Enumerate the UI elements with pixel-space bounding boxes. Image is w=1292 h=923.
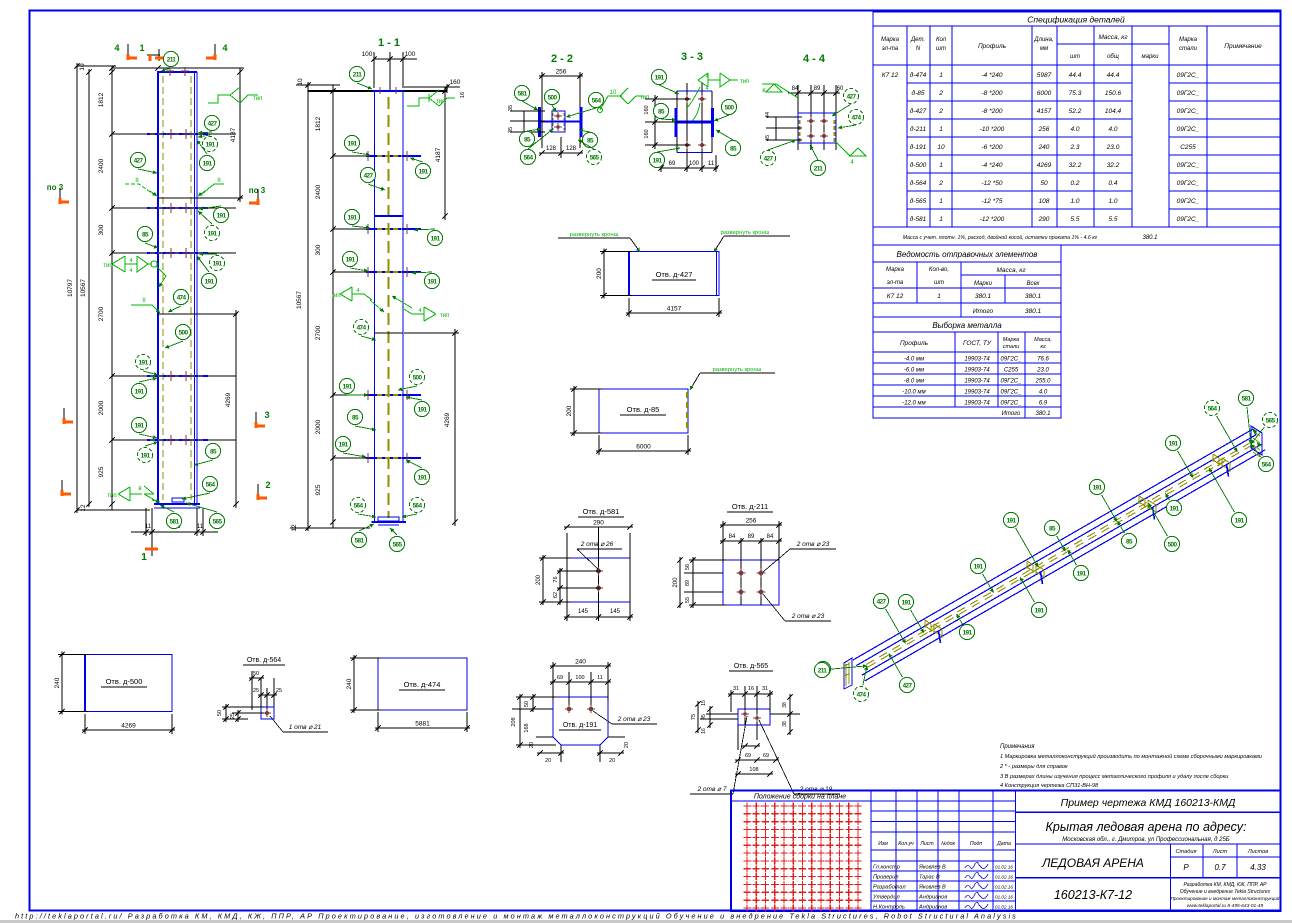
section 3-3 flange plates (675, 108, 678, 137)
svg-text:4.33: 4.33 (1250, 863, 1266, 872)
svg-text:Итого: Итого (973, 308, 994, 315)
detail d-427 dim 4157 (628, 298, 630, 317)
detail d-191 bolts (567, 707, 571, 711)
svg-text:25: 25 (253, 688, 259, 694)
svg-text:191: 191 (418, 474, 428, 481)
svg-text:тип: тип (331, 293, 340, 299)
svg-text:-6 *200: -6 *200 (982, 144, 1003, 151)
svg-text:http://teklaportal.ru/ Разра: http://teklaportal.ru/ Разработка КМ, КМ… (15, 912, 1018, 921)
svg-text:Дет.: Дет. (910, 37, 925, 43)
svg-text:160: 160 (644, 129, 650, 138)
detail d-427 plate outline (628, 251, 630, 296)
svg-text:Кол: Кол (936, 37, 947, 43)
isometric beam dashed gauge lines (866, 440, 1254, 664)
detail d-581 plate (566, 533, 568, 621)
svg-text:Стадия: Стадия (1176, 849, 1197, 855)
svg-text:256: 256 (746, 518, 757, 525)
svg-text:2 отв ⌀ 26: 2 отв ⌀ 26 (580, 541, 614, 548)
svg-text:2000: 2000 (315, 419, 322, 434)
svg-text:эл-та: эл-та (882, 46, 899, 52)
svg-text:75.3: 75.3 (1069, 90, 1082, 97)
svg-text:Лист: Лист (1212, 849, 1228, 855)
detail d-500 dim 4269 (84, 714, 86, 734)
svg-text:01.02.16: 01.02.16 (995, 895, 1013, 900)
svg-text:474: 474 (357, 324, 367, 331)
svg-text:Обучение и внедрение Tekla Str: Обучение и внедрение Tekla Structures (1180, 889, 1271, 895)
svg-text:427: 427 (903, 682, 913, 689)
svg-text:Утвердил: Утвердил (872, 895, 900, 901)
svg-text:Отв. д-565: Отв. д-565 (734, 663, 768, 670)
section 4-4 left dims 44 45 (775, 117, 777, 140)
svg-text:2700: 2700 (315, 325, 322, 340)
svg-text:2: 2 (938, 90, 943, 97)
svg-text:191: 191 (208, 230, 218, 237)
svg-text:Р: Р (1183, 863, 1189, 872)
svg-text:www.teklaportal.ru 8-49: www.teklaportal.ru 8-495-643-01-49 (1187, 903, 1264, 909)
svg-text:01.02.16: 01.02.16 (995, 875, 1013, 880)
svg-text:52.2: 52.2 (1069, 108, 1082, 115)
section 3-3 bolts (685, 97, 689, 101)
svg-text:191: 191 (431, 235, 441, 242)
svg-text:д-427: д-427 (910, 107, 927, 115)
detail d-85 plate outline (599, 389, 688, 433)
svg-text:4.0: 4.0 (1039, 390, 1048, 396)
left elevation: column right edge (double line) (194, 72, 196, 504)
section 2-2 balloons (514, 85, 529, 100)
svg-text:565: 565 (1266, 417, 1276, 424)
svg-text:01.02.16: 01.02.16 (995, 865, 1013, 870)
isometric beam left end section (844, 658, 852, 689)
section 4-4 gauge lines (797, 85, 799, 150)
svg-text:16: 16 (748, 686, 754, 692)
svg-text:19903-74: 19903-74 (964, 401, 990, 407)
svg-text:10567: 10567 (80, 279, 87, 297)
svg-text:581: 581 (170, 518, 180, 525)
svg-text:0.4: 0.4 (1108, 180, 1117, 187)
svg-text:85: 85 (524, 136, 531, 143)
svg-text:мм: мм (1040, 46, 1048, 52)
svg-text:-4.0 мм: -4.0 мм (904, 357, 924, 363)
svg-text:Изм: Изм (878, 841, 888, 847)
svg-text:75: 75 (691, 714, 697, 720)
svg-text:191: 191 (1093, 484, 1103, 491)
svg-text:4269: 4269 (121, 723, 136, 730)
svg-text:50: 50 (524, 701, 530, 707)
svg-text:564: 564 (592, 97, 602, 104)
detail d-211 bolts (739, 571, 744, 576)
svg-text:240: 240 (1038, 144, 1050, 151)
svg-text:1 отв ⌀ 21: 1 отв ⌀ 21 (289, 724, 322, 731)
section 2-2 bottom dims 128 128 (560, 137, 562, 158)
svg-text:5987: 5987 (1037, 72, 1052, 79)
svg-text:09Г2С_: 09Г2С_ (1001, 379, 1022, 385)
svg-text:1 - 1: 1 - 1 (378, 37, 400, 49)
svg-text:Марка: Марка (1003, 337, 1019, 343)
svg-text:по 3: по 3 (249, 186, 266, 195)
title block frame (731, 791, 1281, 912)
detail d-565 gauge lines (744, 686, 746, 725)
svg-text:45: 45 (765, 135, 771, 141)
left elevation weld arrow II mid (131, 304, 152, 306)
section 4-4 bolts (809, 119, 813, 123)
svg-text:1: 1 (939, 162, 943, 169)
svg-text:69: 69 (557, 675, 563, 681)
svg-text:191: 191 (418, 406, 428, 413)
svg-text:марки: марки (1142, 54, 1160, 60)
svg-text:380.1: 380.1 (975, 293, 992, 300)
svg-text:200: 200 (596, 268, 603, 279)
view 1-1 balloons (349, 66, 364, 81)
svg-text:шт: шт (934, 280, 944, 286)
svg-text:100: 100 (362, 51, 373, 58)
svg-text:-12 *50: -12 *50 (982, 180, 1003, 187)
svg-text:380.1: 380.1 (1025, 308, 1042, 315)
svg-text:85: 85 (352, 414, 359, 421)
svg-text:тип: тип (103, 263, 112, 269)
svg-text:д-85: д-85 (912, 89, 925, 97)
svg-text:Масса, кг: Масса, кг (1098, 34, 1128, 41)
svg-text:427: 427 (877, 598, 887, 605)
svg-text:09Г2С_: 09Г2С_ (1001, 357, 1022, 363)
svg-text:10797: 10797 (67, 279, 74, 297)
svg-text:191: 191 (1077, 570, 1087, 577)
view 1-1 right dim 4187 (404, 86, 449, 88)
svg-text:Яковлев В: Яковлев В (918, 885, 946, 891)
svg-text:4157: 4157 (667, 306, 682, 313)
svg-text:2 отв ⌀ 23: 2 отв ⌀ 23 (791, 613, 825, 620)
svg-text:564: 564 (524, 154, 534, 161)
svg-text:380.1: 380.1 (1142, 235, 1157, 241)
svg-text:-12.0 мм: -12.0 мм (902, 401, 926, 407)
svg-text:10: 10 (297, 78, 304, 86)
svg-text:25: 25 (276, 688, 282, 694)
svg-text:85: 85 (587, 137, 594, 144)
svg-text:тип: тип (440, 313, 449, 319)
svg-text:Дата: Дата (996, 841, 1011, 847)
detail d-581 dim 290 (564, 526, 633, 528)
metal takeoff grid (954, 332, 956, 407)
detail d-581 bolts (596, 569, 601, 574)
svg-text:191: 191 (206, 141, 216, 148)
svg-text:ГОСТ, ТУ: ГОСТ, ТУ (963, 340, 992, 347)
svg-text:128: 128 (566, 146, 577, 152)
svg-text:150.6: 150.6 (1105, 90, 1122, 97)
svg-text:4187: 4187 (435, 147, 442, 162)
svg-text:255.0: 255.0 (1034, 379, 1051, 385)
svg-text:Листов: Листов (1247, 849, 1268, 855)
svg-text:Длина,: Длина, (1033, 37, 1053, 43)
svg-text:2 отв ⌀ 23: 2 отв ⌀ 23 (617, 716, 651, 723)
svg-text:3 - 3: 3 - 3 (681, 51, 703, 63)
view 1-1 weld tip 4 left (340, 287, 372, 301)
svg-text:20: 20 (545, 758, 551, 764)
svg-text:191: 191 (139, 359, 149, 366)
svg-text:191: 191 (974, 563, 984, 570)
detail d-564 plate (261, 707, 274, 719)
svg-text:Отв. д-581: Отв. д-581 (583, 507, 620, 516)
svg-text:15: 15 (701, 700, 707, 706)
svg-text:09Г2С_: 09Г2С_ (1001, 401, 1022, 407)
svg-text:191: 191 (428, 278, 438, 285)
section marker 2 left (61, 480, 63, 494)
svg-text:20: 20 (529, 742, 535, 748)
svg-text:-12 *75: -12 *75 (982, 198, 1003, 205)
svg-text:Отв. д-474: Отв. д-474 (404, 680, 441, 689)
svg-text:50: 50 (1040, 180, 1048, 187)
svg-text:500: 500 (725, 104, 735, 111)
svg-text:168: 168 (524, 723, 530, 732)
svg-text:76: 76 (553, 576, 559, 582)
svg-text:11: 11 (708, 161, 715, 167)
view 1-1 column edges (374, 91, 376, 522)
svg-text:500: 500 (179, 329, 189, 336)
svg-text:Подп: Подп (970, 841, 983, 847)
svg-text:100: 100 (689, 161, 700, 167)
detail d-500 plate (84, 654, 86, 712)
specification table rows (907, 82, 1132, 84)
svg-text:4187: 4187 (230, 127, 237, 142)
section 2-2 left dims 35 35 (523, 111, 525, 132)
svg-text:тип: тип (107, 493, 116, 499)
svg-text:564: 564 (413, 502, 423, 509)
detail d-564 left dims (222, 706, 264, 708)
svg-text:85: 85 (142, 231, 149, 238)
svg-text:3 В размерах длины изучения п: 3 В размерах длины изучения процесс мета… (1000, 774, 1228, 780)
view 1-1 splice lines (375, 215, 404, 217)
left elevation weld symbol II level2 right (202, 184, 224, 194)
svg-text:69: 69 (745, 753, 751, 759)
detail d-427 dim 200 (600, 251, 632, 253)
svg-text:Масса,: Масса, (1034, 337, 1052, 343)
left elevation: bottom width dims 11 256 11 (145, 508, 147, 536)
svg-text:II: II (217, 177, 221, 184)
detail d-564 bolt (265, 711, 269, 715)
shipping elements table grid (916, 262, 918, 303)
svg-text:-10 *200: -10 *200 (980, 126, 1005, 133)
svg-text:д-191: д-191 (910, 143, 927, 151)
svg-text:191: 191 (655, 74, 665, 81)
view 1-1 base plate (372, 521, 407, 523)
metal takeoff rows (873, 362, 1061, 364)
svg-text:128: 128 (546, 146, 557, 152)
left elevation: segment dimension line (111, 66, 113, 510)
svg-text:II: II (135, 177, 139, 184)
detail d-191 gauge lines (568, 672, 570, 710)
svg-text:К7 12: К7 12 (882, 72, 899, 79)
svg-text:19903-74: 19903-74 (964, 357, 990, 363)
left elevation balloons with leaders (163, 51, 178, 66)
detail d-191 dim 240 top (552, 662, 554, 700)
svg-text:200: 200 (536, 574, 542, 585)
svg-text:2: 2 (265, 480, 270, 490)
svg-text:211: 211 (818, 667, 828, 674)
detail d-211 gauge lines (740, 538, 742, 605)
svg-text:С255: С255 (1180, 144, 1196, 151)
svg-text:581: 581 (1242, 395, 1252, 402)
metal takeoff table frame (873, 317, 1061, 418)
svg-text:256: 256 (556, 69, 567, 76)
section 2-2 connector plates (552, 111, 565, 132)
detail d-581 gauge line (598, 527, 600, 621)
svg-text:145: 145 (610, 609, 621, 615)
svg-text:Тарас В: Тарас В (919, 875, 940, 881)
svg-text:6000: 6000 (1037, 90, 1052, 97)
svg-text:д-474: д-474 (910, 71, 927, 79)
svg-text:Всех: Всех (1026, 281, 1040, 287)
svg-text:2: 2 (938, 180, 943, 187)
svg-text:Примечание: Примечание (1224, 43, 1262, 50)
svg-text:Положение сборки на плане: Положение сборки на плане (754, 793, 846, 801)
svg-text:Отв. д-500: Отв. д-500 (106, 677, 143, 686)
footer grey bar (0, 920, 1292, 923)
svg-text:191: 191 (1035, 607, 1045, 614)
svg-text:стали: стали (1003, 344, 1019, 350)
section 4-4 balloons (843, 88, 858, 103)
svg-text:1: 1 (937, 293, 941, 300)
left elevation: top plate bolt ticks (169, 67, 171, 76)
section 2-2 top dim 256 (539, 75, 583, 77)
view 1-1 stiffener rows (333, 155, 366, 157)
svg-text:19903-74: 19903-74 (964, 368, 990, 374)
svg-text:1812: 1812 (98, 92, 105, 107)
svg-text:1.0: 1.0 (1108, 198, 1117, 205)
svg-text:16: 16 (460, 92, 466, 98)
svg-text:д-211: д-211 (910, 125, 927, 133)
svg-text:38: 38 (782, 721, 788, 727)
specification table bottom note (873, 226, 1280, 228)
svg-text:Профиль: Профиль (900, 340, 929, 347)
left elevation: column top plate (157, 71, 197, 73)
svg-text:2400: 2400 (315, 184, 322, 199)
svg-text:925: 925 (315, 484, 322, 495)
svg-text:108: 108 (749, 767, 758, 773)
section 2-2 flanges (538, 107, 541, 137)
svg-text:211: 211 (814, 165, 824, 172)
svg-text:по 3: по 3 (47, 183, 64, 192)
svg-text:4: 4 (114, 43, 119, 53)
left elevation: splice lines (158, 197, 243, 199)
isometric beam right end plate (1251, 426, 1262, 455)
svg-text:240: 240 (346, 678, 353, 689)
svg-text:2.3: 2.3 (1069, 144, 1079, 151)
svg-text:62: 62 (553, 592, 559, 598)
svg-text:31: 31 (762, 686, 768, 692)
detail d-211 dim 256 (722, 521, 724, 563)
svg-text:31: 31 (733, 686, 739, 692)
section 4-4 edge welds olive (799, 120, 801, 142)
title block: assembly position label (731, 800, 871, 802)
svg-text:20: 20 (624, 742, 630, 748)
svg-text:Н.Контроль: Н.Контроль (873, 905, 905, 911)
svg-text:Марки: Марки (974, 281, 993, 287)
detail d-565 plate (738, 709, 770, 725)
detail d-211 left dims (689, 559, 726, 561)
svg-text:76.6: 76.6 (1037, 357, 1049, 363)
svg-text:211: 211 (167, 56, 177, 63)
svg-text:500: 500 (413, 374, 423, 381)
svg-text:191: 191 (339, 441, 349, 448)
svg-text:191: 191 (141, 452, 151, 459)
svg-text:4 Конструкция чертежа СП31-ВН: 4 Конструкция чертежа СП31-ВН-98 (1000, 783, 1099, 789)
svg-text:44: 44 (765, 112, 771, 118)
svg-text:44.4: 44.4 (1107, 72, 1120, 79)
svg-text:160: 160 (644, 105, 650, 114)
svg-text:32.2: 32.2 (1107, 162, 1120, 169)
svg-text:Разработка КМ, КМД, КЖ, ППР, А: Разработка КМ, КМД, КЖ, ППР, АР (1183, 882, 1267, 888)
left elevation: bolt gauge dashed lines (162, 76, 164, 500)
detail d-565 bolts (743, 712, 747, 716)
svg-text:300: 300 (98, 224, 105, 235)
detail d-474 dim 240 (350, 657, 381, 659)
svg-text:Марка: Марка (1179, 37, 1198, 43)
svg-text:II: II (142, 297, 146, 304)
svg-text:191: 191 (1170, 505, 1180, 512)
svg-text:84: 84 (767, 534, 774, 540)
svg-text:4.0: 4.0 (1108, 126, 1117, 133)
svg-text:565: 565 (590, 154, 600, 161)
title block: middle signature table (895, 791, 897, 912)
svg-text:Кол.уч: Кол.уч (898, 841, 914, 847)
svg-text:№док: №док (941, 841, 955, 847)
svg-text:Андрианов: Андрианов (918, 905, 947, 911)
svg-text:4: 4 (129, 258, 132, 264)
left elevation weld symbol II level2 left (125, 184, 158, 197)
view 1-1 top dims 100 100 (374, 58, 417, 60)
section 2-2 web (541, 121, 580, 123)
section 2-2 bolts (556, 114, 560, 118)
svg-text:10567: 10567 (296, 291, 303, 309)
left elevation weld symbol bottom tip (118, 486, 158, 502)
svg-text:104.4: 104.4 (1105, 108, 1122, 115)
svg-text:11: 11 (197, 524, 204, 530)
svg-text:200: 200 (673, 577, 679, 588)
svg-text:-4 *240: -4 *240 (982, 162, 1003, 169)
svg-text:К7 12: К7 12 (887, 293, 904, 300)
svg-text:191: 191 (1007, 517, 1017, 524)
svg-text:32.2: 32.2 (1069, 162, 1082, 169)
svg-text:85: 85 (730, 145, 737, 152)
view 1-1 top plate bolts (379, 87, 381, 94)
svg-text:191: 191 (1235, 517, 1245, 524)
svg-text:84: 84 (729, 534, 736, 540)
svg-text:-12 *200: -12 *200 (980, 216, 1005, 223)
detail d-85 dim 200 (570, 388, 602, 390)
svg-text:564: 564 (1208, 405, 1218, 412)
svg-text:45: 45 (701, 714, 707, 720)
svg-text:4: 4 (706, 86, 709, 92)
svg-text:4: 4 (418, 308, 421, 314)
left elevation: column web left edge (157, 72, 159, 504)
svg-text:кг: кг (1040, 344, 1046, 350)
svg-text:4269: 4269 (444, 412, 451, 427)
svg-text:85: 85 (1126, 538, 1133, 545)
svg-text:69: 69 (669, 161, 676, 167)
svg-text:240: 240 (575, 659, 586, 666)
svg-text:191: 191 (217, 212, 227, 219)
svg-text:2: 2 (938, 108, 943, 115)
svg-text:2000: 2000 (98, 400, 105, 415)
svg-text:2 отв ⌀ 23: 2 отв ⌀ 23 (796, 541, 830, 548)
svg-text:1: 1 (939, 72, 943, 79)
svg-text:Яковлев В: Яковлев В (918, 865, 946, 871)
svg-text:89: 89 (814, 86, 821, 92)
section 3-3 left dims 160 160 (654, 95, 656, 149)
svg-text:0.2: 0.2 (1070, 180, 1079, 187)
svg-text:2400: 2400 (98, 158, 105, 173)
svg-text:Крытая ледовая арена по адресу: Крытая ледовая арена по адресу: (1046, 820, 1247, 834)
svg-text:3: 3 (264, 410, 269, 420)
svg-text:4.0: 4.0 (1070, 126, 1079, 133)
